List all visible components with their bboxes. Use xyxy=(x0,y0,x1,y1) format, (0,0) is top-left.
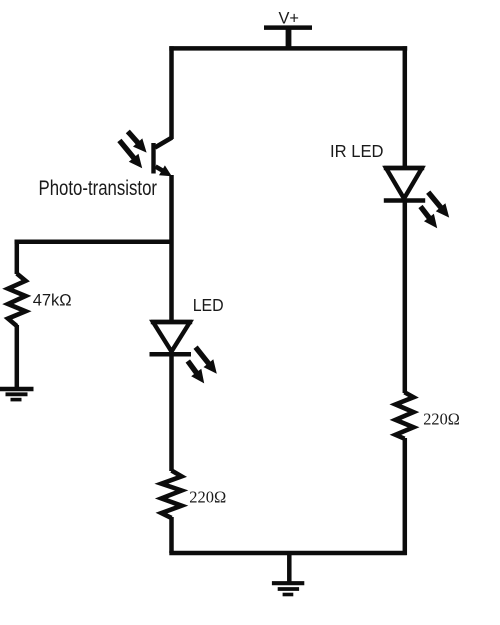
svg-text:LED: LED xyxy=(193,295,224,315)
svg-text:220Ω: 220Ω xyxy=(423,410,460,429)
wire right vertical top xyxy=(403,46,408,168)
power supply V+ stub xyxy=(286,28,292,50)
wire bottom horizontal xyxy=(169,551,406,556)
svg-text:220Ω: 220Ω xyxy=(189,488,226,507)
wire left vertical (collector branch) xyxy=(169,46,174,139)
LED D1 cathode bar xyxy=(150,352,192,357)
LED D1 anode bar xyxy=(151,320,192,325)
resistor R3 220 zigzag xyxy=(396,392,414,438)
ground bottom stub xyxy=(287,553,292,583)
ground bottom symbol xyxy=(272,583,304,594)
wire below R3 to bottom xyxy=(403,438,408,555)
resistor R1 47k zigzag xyxy=(8,274,26,327)
IR emit arrow 2 xyxy=(418,205,437,228)
LED D2 (IR) triangle xyxy=(386,168,422,199)
wire top horizontal xyxy=(169,46,407,51)
wire horizontal to divider xyxy=(15,240,172,245)
light arrow 2 into photo-transistor xyxy=(117,139,142,169)
wire emitter vertical down to LED xyxy=(169,175,174,322)
LED D1 triangle xyxy=(153,322,190,352)
LED D1 emit arrow 2 xyxy=(186,359,205,383)
wire below R1 to ground xyxy=(15,325,20,391)
wire below LED to R2 xyxy=(169,354,174,471)
light arrow 1 into photo-transistor xyxy=(126,130,147,153)
power supply V+ bar xyxy=(264,25,312,30)
svg-text:Photo-transistor: Photo-transistor xyxy=(39,177,158,200)
ground left symbol xyxy=(0,389,34,400)
resistor R2 220 zigzag xyxy=(161,471,181,519)
svg-text:V+: V+ xyxy=(279,9,300,28)
LED D2 (IR) anode bar xyxy=(384,166,424,171)
svg-text:47kΩ: 47kΩ xyxy=(33,292,72,310)
wire left branch vertical xyxy=(15,240,20,275)
transistor Q1 collector diagonal xyxy=(155,138,172,148)
transistor Q1 base bar xyxy=(151,143,155,174)
wire below R2 to bottom xyxy=(169,517,174,553)
wire below IR LED to R3 xyxy=(403,201,408,394)
IR emit arrow 1 xyxy=(426,191,449,218)
LED D2 (IR) cathode bar xyxy=(384,198,425,203)
transistor Q1 emitter diagonal with arrow xyxy=(156,165,172,176)
svg-text:IR LED: IR LED xyxy=(330,141,384,161)
LED D1 emit arrow 1 xyxy=(194,346,217,374)
